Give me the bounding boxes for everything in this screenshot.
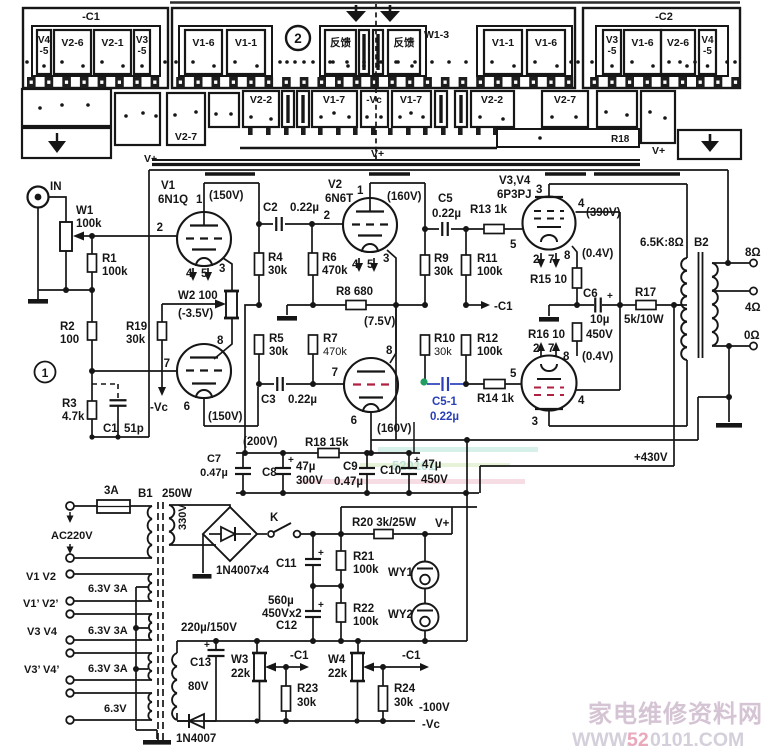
svg-text:V2-6: V2-6 (667, 37, 689, 49)
V2b pin8 lead (390, 305, 396, 363)
inner group frame c2 (320, 26, 426, 76)
-C1 arrow W3 (286, 666, 300, 668)
W4 wiper arrow (363, 663, 374, 672)
svg-text:C12: C12 (276, 620, 297, 632)
svg-text:R13 1k: R13 1k (470, 204, 508, 216)
resistor R24 (382, 667, 384, 686)
capacitor C7 (242, 453, 244, 467)
svg-text:C2: C2 (263, 202, 278, 214)
svg-text:(0.4V): (0.4V) (582, 248, 613, 260)
svg-text:100k: 100k (477, 266, 503, 278)
pcb row2 arrow box left (22, 128, 111, 158)
capacitor C12 electrolytic (312, 586, 314, 610)
svg-text:450V: 450V (421, 474, 448, 486)
pcb module V2-2 right (471, 91, 514, 127)
pcb module V2-6 row1 (661, 30, 695, 74)
pcb row2 box c (597, 91, 637, 127)
svg-text:250W: 250W (162, 488, 192, 500)
svg-text:100k: 100k (353, 564, 379, 576)
svg-text:R11: R11 (477, 253, 498, 265)
svg-text:R14 1k: R14 1k (477, 393, 515, 405)
V2 anode wire pin1 (370, 183, 425, 229)
svg-text:V2-2: V2-2 (250, 94, 272, 106)
svg-text:+: + (204, 640, 210, 651)
resistor R14 (484, 380, 505, 389)
watermark colour streaks (300, 447, 538, 484)
pcb module strip row1 (359, 30, 369, 74)
pcb module V2-1 row1 (94, 30, 131, 74)
power supply section (23, 436, 479, 745)
svg-text:3: 3 (383, 253, 389, 265)
svg-text:100k: 100k (477, 346, 503, 358)
inner group frame c3 (477, 26, 572, 76)
svg-text:W3: W3 (231, 654, 248, 666)
wire R8 node down to 200V rail (395, 305, 397, 440)
svg-text:1N4007x4: 1N4007x4 (216, 565, 270, 577)
svg-text:0.47µ: 0.47µ (200, 467, 228, 479)
svg-text:5: 5 (510, 239, 517, 251)
bridge ground (202, 534, 204, 573)
svg-text:R24: R24 (394, 683, 416, 695)
-C1 arrow W4 (383, 666, 420, 668)
svg-text:C3: C3 (261, 394, 276, 406)
V2b cathode pin6 (370, 412, 372, 453)
V3 screen pin4 (576, 211, 621, 213)
svg-text:V+: V+ (371, 148, 384, 160)
svg-text:6.3V 3A: 6.3V 3A (88, 583, 128, 595)
capacitor C13 electrolytic (215, 641, 217, 649)
svg-text:C5-1: C5-1 (432, 396, 458, 408)
svg-text:6.3V: 6.3V (104, 703, 127, 715)
wire jack ground drop (37, 207, 39, 299)
svg-text:W1: W1 (76, 205, 94, 217)
dashed center line (375, 4, 377, 160)
resistor R5 (255, 335, 264, 354)
feedback wire top rail (149, 169, 728, 171)
wire bridge to switch (257, 533, 267, 535)
svg-text:4.7k: 4.7k (62, 411, 85, 423)
svg-text:C7: C7 (207, 453, 221, 465)
svg-text:V3 V4: V3 V4 (27, 626, 58, 638)
node R9 bottom (422, 302, 428, 308)
svg-text:7: 7 (332, 367, 338, 379)
svg-text:-C1: -C1 (402, 650, 421, 662)
svg-text:V1-7: V1-7 (323, 94, 345, 106)
capacitor C5 (425, 228, 466, 230)
-Vc arrow (161, 340, 163, 388)
pcb module strip row1 (373, 30, 383, 74)
wire grid V1 pin2 (92, 235, 177, 237)
resistor R2 (91, 290, 93, 322)
heater winding D (148, 693, 152, 720)
svg-text:560µ: 560µ (268, 595, 294, 607)
svg-text:470k: 470k (323, 346, 347, 358)
resistor R7 (309, 335, 318, 354)
svg-text:0.22µ: 0.22µ (290, 202, 319, 214)
heater terminal y=614 (66, 610, 74, 618)
ground stub R8 (287, 304, 313, 306)
svg-text:-5: -5 (138, 46, 147, 57)
triode V1 lower (177, 344, 231, 398)
capacitor C5-1 (blue) (427, 383, 440, 385)
svg-text:-Vc: -Vc (422, 719, 441, 731)
node C5-1 right (463, 381, 469, 387)
svg-text:3: 3 (536, 184, 542, 196)
lamp WY1 (424, 534, 426, 562)
node cathode bus (574, 302, 580, 308)
svg-text:V1-1: V1-1 (235, 37, 257, 49)
svg-text:4: 4 (578, 198, 585, 210)
B2 center tap wire (674, 304, 687, 306)
svg-text:(-3.5V): (-3.5V) (178, 308, 213, 320)
svg-text:C10: C10 (380, 465, 401, 477)
pcb module V2-2 left (243, 91, 279, 127)
circled 2 marker (286, 26, 310, 50)
4ohm tap (712, 290, 750, 292)
svg-text:R7: R7 (323, 333, 338, 345)
resistor R22 (337, 603, 346, 622)
pcb module V2-6 row1 (54, 30, 91, 74)
wire jack to W1 (48, 197, 66, 222)
bias rail (lamp bottom) (177, 640, 467, 642)
W1 wiper arrow (73, 232, 84, 241)
svg-text:47µ: 47µ (422, 459, 441, 471)
svg-text:0.22µ: 0.22µ (432, 208, 461, 220)
triode V2 lower (344, 358, 398, 412)
potentiometer W1 (60, 222, 72, 251)
svg-text:6N1Q: 6N1Q (158, 194, 188, 206)
capacitor C8 electrolytic (282, 453, 284, 467)
svg-text:V2: V2 (328, 179, 342, 191)
svg-text:-Vc: -Vc (366, 95, 382, 106)
svg-text:V1: V1 (161, 180, 176, 192)
long bus to central ground (371, 439, 698, 441)
svg-text:+: + (607, 291, 613, 302)
svg-text:8Ω: 8Ω (745, 247, 761, 259)
potentiometer W2 (226, 291, 237, 318)
V1 anode wire pin1 (204, 183, 259, 226)
svg-text:(150V): (150V) (209, 190, 244, 202)
8ohm tap (712, 262, 750, 264)
bridge diode symbol (209, 533, 221, 535)
svg-text:6.5K:8Ω: 6.5K:8Ω (640, 237, 684, 249)
right frame of bias box (466, 493, 468, 641)
svg-text:52: 52 (627, 729, 649, 751)
resistor R17 (620, 304, 636, 306)
input arrows top (355, 5, 358, 11)
node -C1 tap (463, 302, 469, 308)
svg-text:6N6T: 6N6T (325, 193, 353, 205)
svg-text:V1-1: V1-1 (492, 37, 514, 49)
svg-text:R20 3k/25W: R20 3k/25W (352, 517, 416, 529)
svg-text:V3,V4: V3,V4 (499, 175, 531, 187)
transformer frame ground (156, 730, 158, 739)
pcb module V2-7 left (167, 93, 205, 145)
fuse 3A (97, 500, 130, 513)
R18 strip box (497, 129, 639, 147)
svg-text:C11: C11 (276, 558, 297, 570)
svg-text:4: 4 (578, 395, 585, 407)
svg-text:6.3V 3A: 6.3V 3A (88, 663, 128, 675)
svg-text:+: + (414, 455, 420, 466)
V3 anode pin3 to primary top (549, 184, 687, 258)
screen bus vertical (619, 212, 621, 390)
svg-text:300V: 300V (296, 475, 323, 487)
svg-text:1: 1 (357, 185, 364, 197)
node C3 left (256, 381, 262, 387)
wire switch to V+ node (300, 533, 452, 535)
switch K (268, 531, 274, 537)
pentode V3 (523, 197, 576, 250)
svg-text:R6: R6 (322, 252, 337, 264)
svg-text:W1-3: W1-3 (424, 29, 449, 41)
input jack IN (28, 187, 49, 208)
svg-text:-5: -5 (608, 46, 617, 57)
heater terminal y=601 (66, 597, 74, 605)
svg-text:V2-7: V2-7 (175, 131, 197, 143)
V4 screen pin4 (576, 389, 621, 391)
node C11/R21 (310, 583, 316, 589)
svg-text:10µ: 10µ (590, 314, 609, 326)
svg-text:R3: R3 (62, 398, 77, 410)
heater winding A (148, 574, 152, 601)
wire terminal-fuse (74, 505, 97, 507)
svg-text:V2-2: V2-2 (481, 94, 503, 106)
heater terminal y=693 (66, 689, 74, 697)
ground stub cathode (549, 304, 577, 306)
capacitor C3 (259, 383, 313, 385)
svg-text:R15 10: R15 10 (530, 274, 567, 286)
svg-text:80V: 80V (188, 681, 209, 693)
svg-text:反馈: 反馈 (394, 36, 415, 49)
pcb module 反馈 row1 (388, 30, 420, 74)
svg-text:V1-6: V1-6 (631, 37, 653, 49)
svg-text:C5: C5 (438, 193, 453, 205)
svg-text:R18 15k: R18 15k (305, 437, 349, 449)
svg-text:C6: C6 (583, 288, 598, 300)
svg-text:+: + (318, 600, 324, 611)
resistor R6 (311, 224, 313, 253)
wire to V2 grid pin2 (312, 223, 343, 225)
resistor R10 (421, 335, 430, 355)
svg-text:V3’ V4’: V3’ V4’ (24, 664, 59, 676)
svg-text:C8: C8 (262, 467, 277, 479)
svg-text:-C2: -C2 (655, 11, 673, 23)
heater winding C (148, 653, 152, 680)
svg-text:22k: 22k (328, 668, 348, 680)
svg-text:-5: -5 (703, 46, 712, 57)
svg-text:0.47µ: 0.47µ (334, 476, 363, 488)
lamp WY2 (424, 589, 426, 604)
pcb module V1-7 right (392, 91, 431, 127)
svg-text:V3: V3 (136, 35, 149, 46)
svg-text:22k: 22k (231, 668, 251, 680)
svg-text:2: 2 (324, 210, 330, 222)
solder dots row1 (25, 60, 29, 64)
narrow pcb strips hatch (362, 34, 365, 70)
capacitor C9 (366, 453, 368, 467)
capacitor C1 dashed link (92, 383, 118, 385)
svg-text:0.22µ: 0.22µ (430, 411, 459, 423)
svg-text:R4: R4 (268, 252, 283, 264)
svg-text:30k: 30k (126, 334, 146, 346)
svg-text:反馈: 反馈 (330, 36, 351, 49)
heater terminal y=574 (66, 570, 74, 578)
B1 HT secondary 330V (169, 505, 174, 545)
inner group frame c1 (179, 26, 272, 76)
svg-text:0.22µ: 0.22µ (288, 394, 317, 406)
heater centre tap chain (136, 587, 157, 730)
pcb row2 left block (22, 89, 111, 126)
svg-text:(0.4V): (0.4V) (582, 351, 613, 363)
pad strip row (27, 77, 36, 89)
svg-text:R16 10: R16 10 (528, 329, 565, 341)
scan border top (170, 1, 740, 4)
drop from C3 node (257, 387, 259, 426)
0ohm tap (712, 345, 750, 347)
pcb row2 box d right (641, 91, 675, 143)
pcb narrow module a (282, 91, 294, 127)
svg-text:R1: R1 (102, 253, 117, 265)
W3 wiper arrow (265, 663, 276, 672)
ground (input) (28, 299, 48, 304)
W2 wiper arrow (162, 303, 216, 305)
svg-text:(160V): (160V) (377, 423, 412, 435)
resistor R11 (465, 229, 467, 255)
resistor R15 (573, 268, 582, 288)
svg-text:AC220V: AC220V (51, 530, 93, 542)
svg-text:2: 2 (294, 31, 302, 46)
svg-text:(160V): (160V) (387, 191, 422, 203)
svg-text:100: 100 (60, 334, 79, 346)
pcb module V1-1 row1 (484, 30, 522, 74)
wire bottom bus input (38, 289, 92, 291)
wire to V2 grid pin7 (313, 383, 344, 385)
B2 core (698, 252, 700, 358)
triode V2 upper (343, 198, 397, 252)
node screen/C6 (617, 302, 623, 308)
svg-text:(200V): (200V) (243, 436, 278, 448)
node R17 right / +430V (671, 302, 677, 308)
pcb narrow module b (297, 91, 309, 127)
heater terminal y=680 (66, 676, 74, 684)
bridge rectifier diamond (203, 507, 257, 561)
PCB board box center (172, 8, 575, 88)
svg-text:1: 1 (42, 366, 49, 380)
heater terminal y=653 (66, 649, 74, 657)
svg-text:7: 7 (164, 358, 170, 370)
svg-text:R5: R5 (269, 333, 284, 345)
pcb module V1-1 row1 (227, 30, 265, 74)
svg-text:R21: R21 (353, 551, 375, 563)
triode V1 upper (177, 212, 231, 266)
pentode V4 (522, 356, 577, 411)
svg-text:100k: 100k (102, 266, 128, 278)
pcb module V4-5 row1 (37, 30, 51, 74)
link R8 node to R9 node (396, 304, 425, 306)
svg-text:V3: V3 (606, 35, 619, 46)
circled 1 marker (35, 362, 56, 383)
svg-text:470k: 470k (322, 265, 348, 277)
pcb module V3-5 row1 (603, 30, 621, 74)
svg-text:450V: 450V (586, 329, 613, 341)
svg-text:WY1: WY1 (388, 567, 414, 579)
svg-text:WWW.: WWW. (572, 729, 632, 751)
pcb module V1-6 row1 (185, 30, 222, 74)
svg-text:+: + (288, 455, 294, 466)
node C5 left (422, 226, 428, 232)
bypass loop top wire (341, 507, 477, 534)
node C2 left (256, 221, 262, 227)
svg-text:V2-6: V2-6 (61, 37, 83, 49)
tap jog to 200V rail (245, 305, 259, 453)
feedback drop to 8ohm tap (727, 170, 729, 262)
capacitor C10 electrolytic (408, 453, 410, 467)
svg-text:0Ω: 0Ω (744, 330, 760, 342)
svg-text:R9: R9 (434, 253, 449, 265)
pcb module -Vc (361, 91, 388, 127)
svg-text:2: 2 (157, 222, 163, 234)
heater terminal y=640 (66, 636, 74, 644)
svg-text:(150V): (150V) (208, 411, 243, 423)
V1b cathode drop pin6 (203, 398, 205, 426)
V4 anode pin3 drop (549, 360, 687, 426)
pcb module V3-5 row1 (134, 30, 150, 74)
PCB board box -C1 (23, 8, 168, 88)
resistor R9 (424, 229, 426, 255)
svg-text:B2: B2 (694, 237, 709, 249)
main amplifier schematic (28, 170, 761, 494)
ground arrow box right (678, 130, 741, 159)
arrow -C1 bias feed (466, 304, 482, 306)
cathode corner wire (204, 425, 258, 427)
minus rail of cap bank (236, 492, 479, 494)
svg-text:K: K (270, 512, 279, 524)
svg-text:220µ/150V: 220µ/150V (181, 622, 237, 634)
svg-text:V1-7: V1-7 (400, 94, 422, 106)
pcb module 反馈 row1 (325, 30, 356, 74)
capacitor C1 (110, 399, 127, 401)
resistor R21 (340, 534, 342, 551)
resistor R4 (258, 224, 260, 253)
svg-text:+430V: +430V (634, 452, 668, 464)
node C3 right (310, 381, 316, 387)
mains terminal top (66, 502, 74, 510)
svg-text:+: + (318, 548, 324, 559)
pcb module V1-6 row1 (624, 30, 661, 74)
B1 primary winding (148, 506, 152, 558)
svg-text:-100V: -100V (419, 702, 450, 714)
svg-text:8: 8 (217, 335, 224, 347)
ground link line (698, 396, 729, 398)
svg-text:R19: R19 (126, 321, 147, 333)
node cathode line V1b (89, 368, 95, 374)
svg-text:V1-6: V1-6 (535, 37, 557, 49)
secondary top wire (169, 505, 230, 507)
svg-text:C9: C9 (343, 461, 358, 473)
B2 secondary winding (712, 263, 718, 346)
resistor R8 (313, 304, 346, 306)
svg-text:C1: C1 (103, 423, 118, 435)
svg-text:30k: 30k (434, 266, 454, 278)
pcb module V4-5 row1 (699, 30, 716, 74)
mains terminal bottom (66, 554, 74, 562)
svg-text:6: 6 (184, 401, 190, 413)
svg-text:100k: 100k (353, 616, 379, 628)
svg-text:-5: -5 (40, 46, 49, 57)
svg-text:IN: IN (50, 181, 62, 193)
svg-text:-C1: -C1 (290, 650, 309, 662)
